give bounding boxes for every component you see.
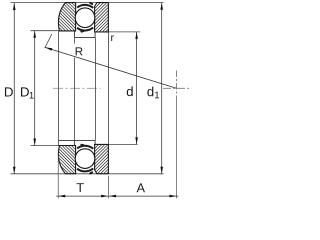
cage skirt upper section	[75, 31, 96, 38]
ball upper section	[75, 8, 95, 28]
label D1 letter	[21, 87, 29, 96]
cage lower band (top section)	[77, 28, 93, 31]
cage lip knot (top section upper)	[89, 1, 94, 5]
T/A shared extension line (shaft washer back face)	[108, 176, 110, 199]
label A	[137, 183, 145, 192]
cage skirt lower section	[59, 140, 95, 145]
D1 extension line top	[31, 30, 60, 32]
d extension line top	[108, 31, 140, 33]
bore silhouette line (housing washer bore corner)	[58, 31, 60, 146]
cage lip knot (bottom section upper)	[80, 143, 85, 147]
label D1 subscript	[30, 92, 34, 99]
sphere centre vertical centerline / A extension line	[175, 71, 177, 102]
bore silhouette line (shaft washer back face)	[108, 32, 110, 144]
label D	[5, 87, 13, 96]
housing washer upper section (sphered back)	[58, 3, 75, 31]
shaft washer lower section	[95, 144, 109, 173]
T/A dimension line	[56, 195, 178, 198]
D1 extension line bottom	[31, 145, 60, 147]
cage lower band (bottom section)	[77, 168, 93, 171]
shaft washer upper section	[95, 3, 109, 32]
housing washer lower section	[58, 146, 75, 174]
dimension line d	[135, 32, 138, 144]
bore silhouette line (shaft washer front face)	[95, 38, 97, 141]
bore silhouette line (housing washer front face)	[74, 38, 76, 44]
R radius line to sphere centre	[45, 34, 177, 88]
ball lower section	[75, 149, 95, 169]
label d1 letter	[147, 87, 153, 97]
cage upper band (bottom section)	[77, 146, 93, 149]
T extension line (sphere apex tangent)	[57, 153, 59, 199]
label d1 subscript	[155, 92, 159, 99]
cage lip knot (bottom section lower)	[89, 171, 94, 175]
cage lip knot (top section lower)	[80, 29, 85, 33]
dimension line d1	[160, 3, 163, 174]
dimension line D	[13, 3, 16, 174]
d extension line bottom	[108, 143, 137, 145]
label r	[111, 35, 114, 41]
label T	[77, 183, 84, 192]
dimension line D1	[33, 31, 36, 146]
outer-diameter extension line top	[11, 2, 164, 4]
outer-diameter extension line bottom	[11, 173, 164, 175]
label R	[76, 47, 83, 55]
axis centerline (dash-dot, horizontal through sphere centre C)	[53, 87, 101, 89]
label d	[127, 86, 133, 96]
cage upper band (top section)	[77, 5, 93, 8]
